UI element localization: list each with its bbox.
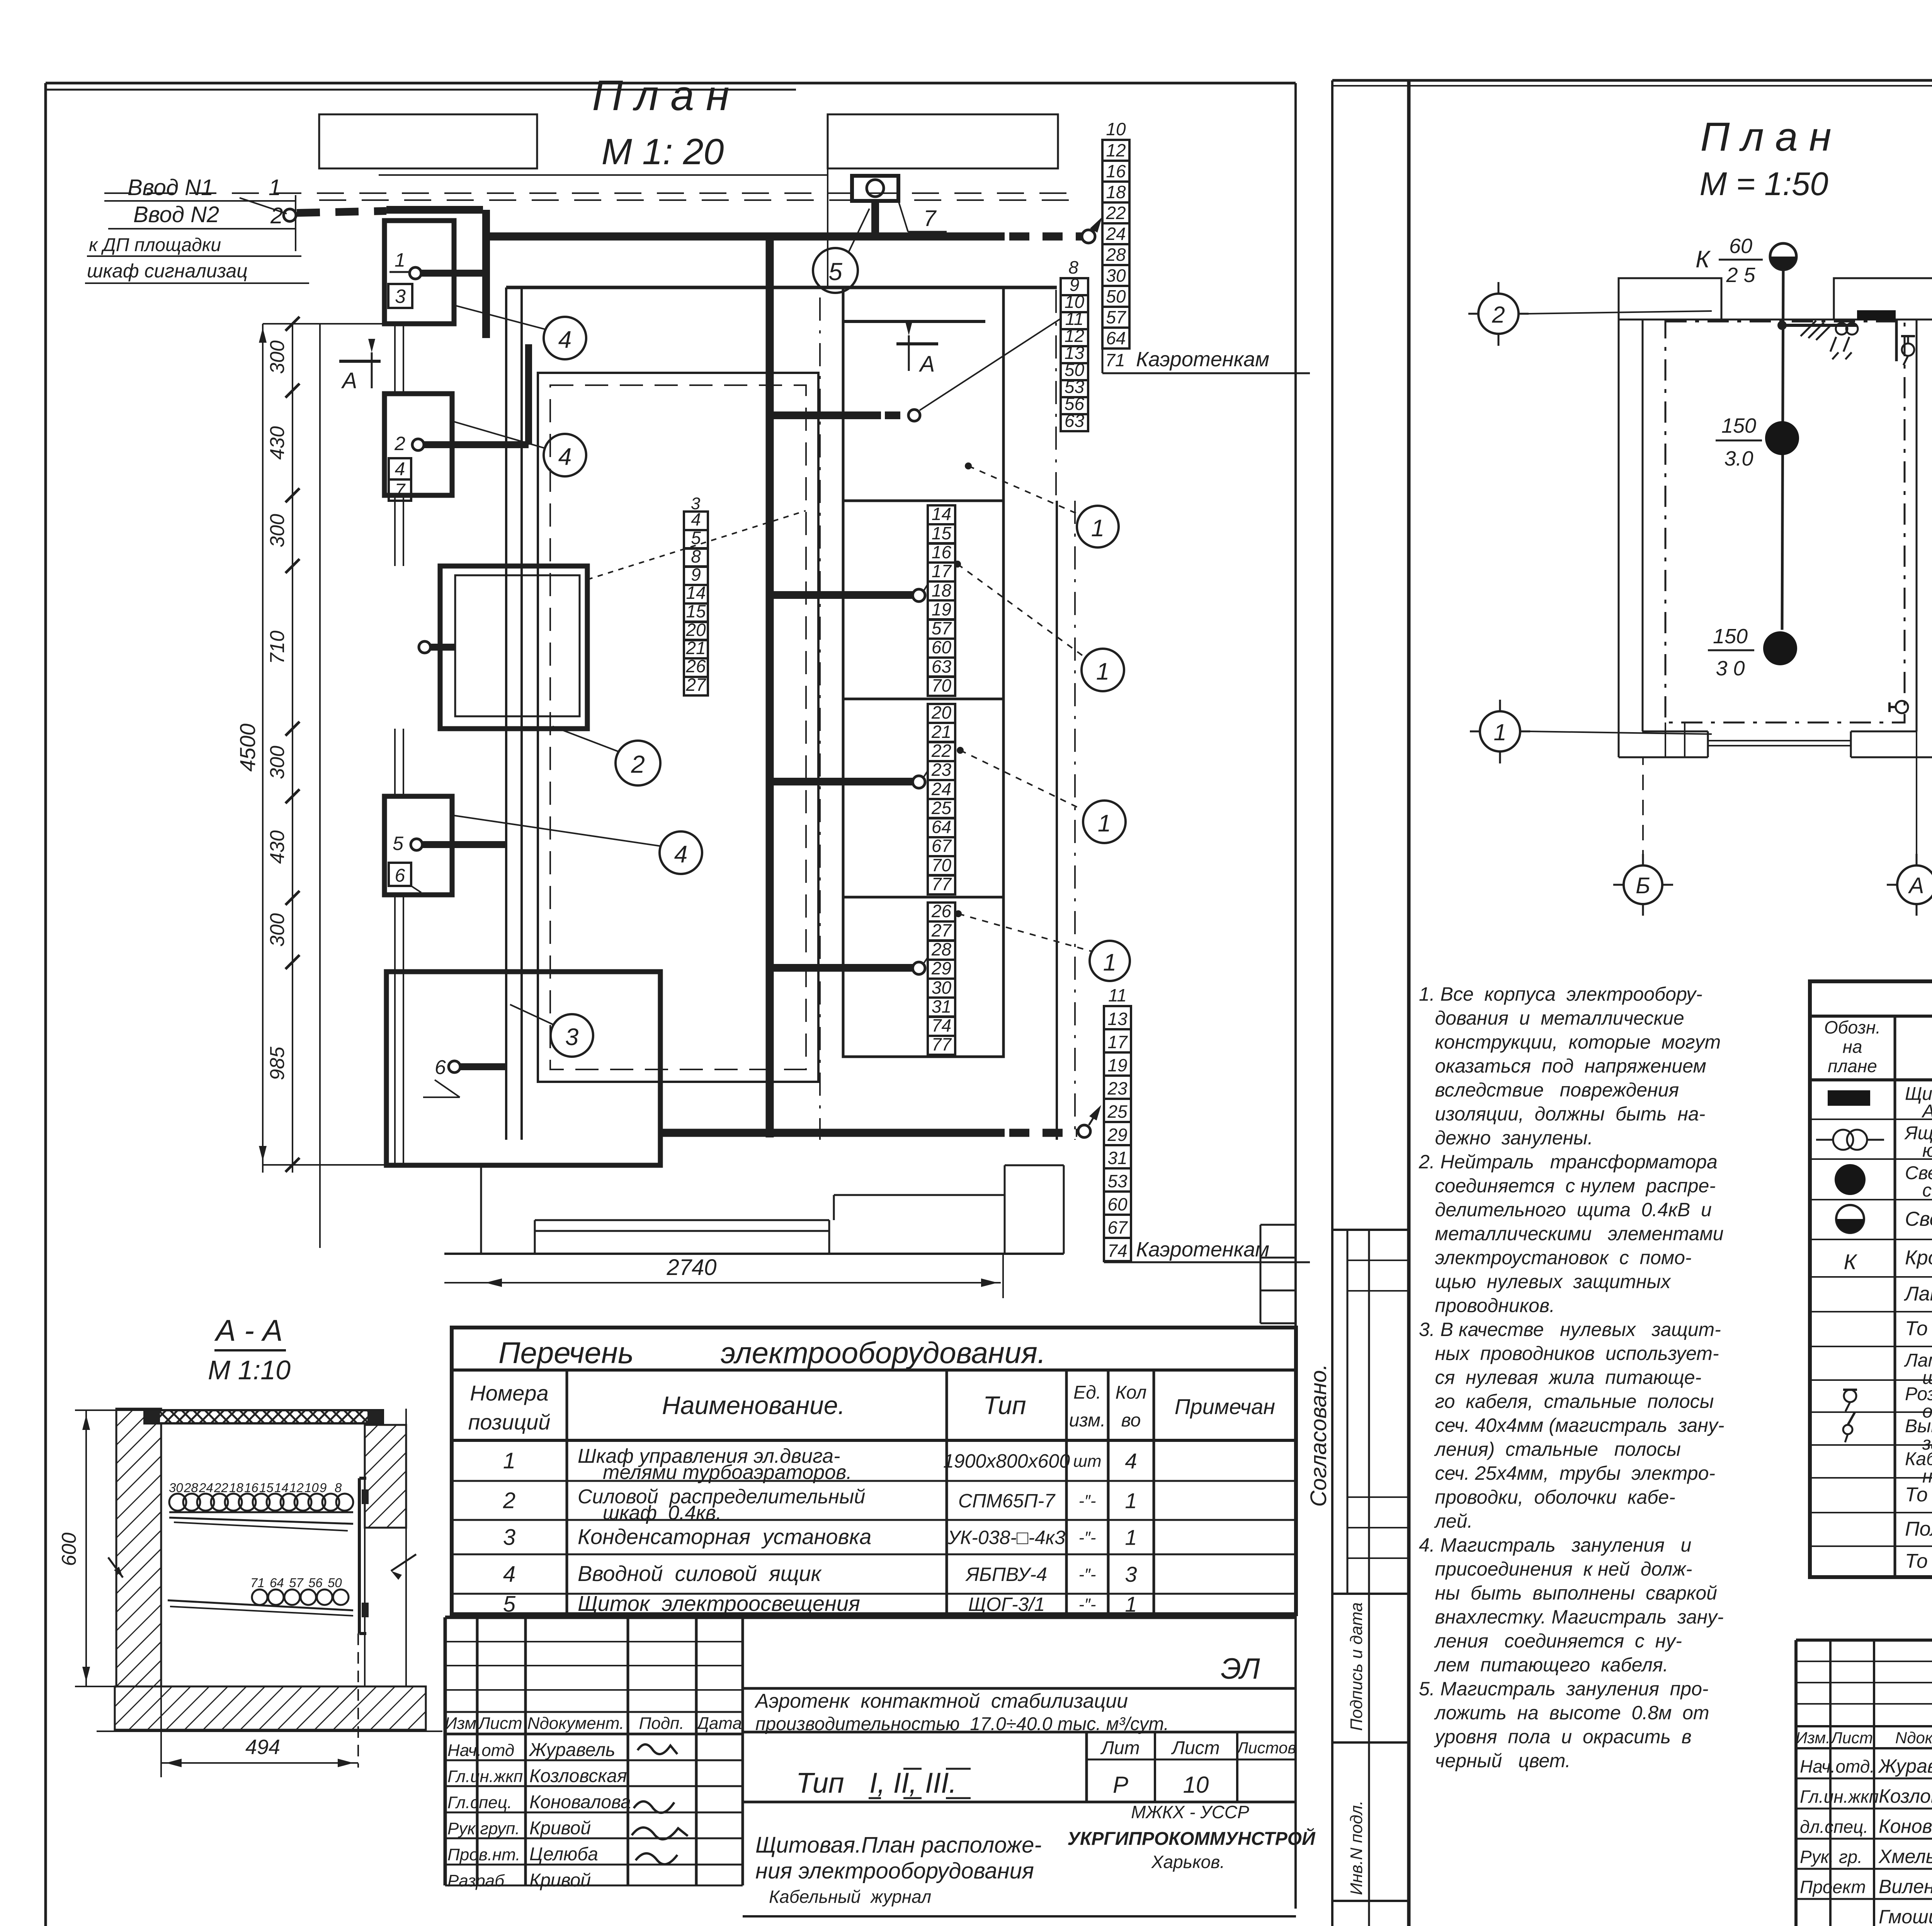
- terminal stack tank3: [928, 901, 955, 1055]
- svg-text:77: 77: [932, 1034, 952, 1054]
- svg-text:Проект: Проект: [1800, 1877, 1866, 1897]
- svg-text:Ввод N1: Ввод N1: [128, 175, 213, 200]
- svg-text:металлическими элементами: металлическими элементами: [1419, 1223, 1724, 1244]
- section mark A right: [896, 322, 938, 377]
- grounding ticks on wire: [1782, 321, 1857, 340]
- signatures left: [632, 1744, 688, 1864]
- svg-text:То же: То же: [1905, 1550, 1932, 1572]
- svg-text:430: 430: [266, 830, 289, 864]
- svg-text:19: 19: [1107, 1055, 1127, 1075]
- svg-text:Кабельный журнал: Кабельный журнал: [769, 1887, 931, 1907]
- svg-text:53: 53: [1107, 1171, 1128, 1191]
- svg-text:Кронштейн настенный.: Кронштейн настенный.: [1905, 1247, 1932, 1269]
- svg-text:27: 27: [685, 675, 706, 695]
- svg-text:То же - 60 Вт: То же - 60 Вт: [1905, 1317, 1932, 1340]
- svg-text:12: 12: [1106, 140, 1126, 160]
- svg-text:26: 26: [685, 656, 706, 676]
- table perechen rows: [503, 1445, 1137, 1617]
- svg-text:Тип: Тип: [983, 1391, 1026, 1419]
- svg-text:5. Магистраль зануления про-: 5. Магистраль зануления про-: [1419, 1678, 1709, 1700]
- socket symbol spec: [1843, 1390, 1857, 1411]
- conduit risers: [395, 324, 403, 1163]
- svg-text:Изм: Изм: [445, 1714, 476, 1733]
- svg-text:проводки, оболочки кабе-: проводки, оболочки кабе-: [1419, 1486, 1675, 1508]
- terminal column top-right: [1102, 119, 1310, 373]
- luminaire NSP top: [1770, 243, 1796, 270]
- svg-text:64: 64: [932, 817, 951, 837]
- svg-text:Подп.: Подп.: [639, 1714, 684, 1733]
- cabinet 3 (distribution cabinet): [419, 566, 587, 729]
- callout circle 4 top: [454, 305, 586, 359]
- svg-text:к ДП площадки: к ДП площадки: [89, 235, 221, 255]
- svg-text:5: 5: [503, 1592, 516, 1617]
- svg-text:24: 24: [931, 779, 951, 799]
- svg-text:71: 71: [1105, 350, 1125, 370]
- svg-text:ления) стальные полосы: ления) стальные полосы: [1419, 1438, 1681, 1460]
- cabinet 1 (box with 1/3): [384, 221, 486, 324]
- svg-text:То же сеч. 3х25: То же сеч. 3х25: [1905, 1484, 1932, 1506]
- svg-text:5: 5: [393, 833, 403, 854]
- callout circle 1 b: [957, 747, 1126, 843]
- svg-text:12: 12: [289, 1481, 304, 1495]
- svg-text:10: 10: [304, 1481, 319, 1495]
- svg-text:Гл.спец.: Гл.спец.: [447, 1793, 512, 1812]
- svg-text:сеч. 40х4мм (магистраль зану-: сеч. 40х4мм (магистраль зану-: [1419, 1414, 1724, 1436]
- svg-text:Козловская: Козловская: [529, 1766, 627, 1787]
- svg-text:Пров.нт.: Пров.нт.: [447, 1845, 520, 1864]
- svg-text:1: 1: [1103, 949, 1116, 976]
- svg-text:СПМ65П-7: СПМ65П-7: [958, 1490, 1056, 1512]
- svg-text:8: 8: [335, 1481, 342, 1495]
- left title block frame: [445, 1617, 1296, 1916]
- svg-text:Коновалова: Коновалова: [529, 1792, 631, 1812]
- svg-text:23: 23: [931, 760, 952, 780]
- svg-text:Нач.отд.: Нач.отд.: [1800, 1756, 1875, 1776]
- wall: tank block left double: [506, 287, 1057, 1140]
- svg-text:проводников.: проводников.: [1419, 1295, 1555, 1316]
- cable bundle row 1: [169, 1481, 353, 1531]
- svg-text:22: 22: [931, 741, 951, 761]
- svg-text:16: 16: [244, 1481, 259, 1495]
- cable bundle row 2: [168, 1576, 353, 1616]
- svg-text:77: 77: [932, 874, 952, 894]
- svg-text:А: А: [1908, 873, 1924, 898]
- callout circle 4 low: [452, 815, 702, 874]
- svg-text:-″-: -″-: [1079, 1595, 1096, 1614]
- wire drop along wall: [1895, 320, 1898, 361]
- svg-text:плане: плане: [1828, 1056, 1877, 1076]
- svg-text:Лит: Лит: [1100, 1738, 1140, 1758]
- svg-text:3: 3: [565, 1024, 578, 1051]
- axis circle A: [1887, 676, 1932, 916]
- svg-text:150: 150: [1721, 414, 1756, 437]
- svg-text:17: 17: [1107, 1032, 1128, 1052]
- svg-text:шт: шт: [1073, 1452, 1101, 1471]
- svg-text:сеч. 25х4мм, трубы электро-: сеч. 25х4мм, трубы электро-: [1419, 1462, 1715, 1484]
- svg-text:Примечан: Примечан: [1175, 1394, 1275, 1419]
- leader marks section: [108, 1554, 416, 1580]
- callout circle 5: [813, 209, 869, 293]
- svg-text:Конденсаторная установка: Конденсаторная установка: [578, 1525, 871, 1549]
- svg-text:Перечень: Перечень: [498, 1336, 634, 1370]
- svg-text:М = 1:50: М = 1:50: [1699, 166, 1828, 202]
- dimension 600: [58, 1410, 145, 1686]
- svg-text:9: 9: [691, 564, 701, 585]
- svg-text:1: 1: [269, 175, 281, 200]
- bottom wall lines: [386, 1165, 1064, 1254]
- room walls M1:50: [1619, 278, 1932, 757]
- svg-text:57: 57: [932, 618, 952, 638]
- left sheet filing strip cells: [1260, 1225, 1296, 1323]
- grounding loop room: [1665, 321, 1905, 722]
- leader to stack 3-27: [587, 511, 806, 580]
- svg-text:1. Все корпуса электрообору-: 1. Все корпуса электрообору-: [1419, 983, 1702, 1005]
- title Plan M1:20: [592, 72, 729, 172]
- wire: main vertical bus: [766, 236, 774, 1137]
- svg-text:11: 11: [1108, 985, 1127, 1005]
- svg-text:4500: 4500: [235, 724, 260, 772]
- svg-text:Щиток электроосвещения: Щиток электроосвещения: [578, 1591, 860, 1616]
- svg-text:Разраб.: Разраб.: [447, 1872, 509, 1890]
- svg-text:15: 15: [686, 601, 706, 621]
- svg-text:Инв.N подл.: Инв.N подл.: [1347, 1800, 1366, 1895]
- sheet frame left: [46, 83, 1296, 1926]
- svg-text:57: 57: [289, 1576, 304, 1590]
- svg-text:300: 300: [266, 514, 289, 547]
- svg-text:Гл.ин.жкп: Гл.ин.жкп: [447, 1767, 523, 1786]
- svg-text:300: 300: [266, 340, 289, 374]
- svg-text:Nдокумент.: Nдокумент.: [527, 1714, 624, 1733]
- svg-text:Номера: Номера: [470, 1381, 548, 1405]
- svg-text:300: 300: [266, 746, 289, 779]
- svg-text:Гмошинский: Гмошинский: [1879, 1906, 1932, 1926]
- svg-text:4: 4: [558, 326, 571, 353]
- svg-text:-″-: -″-: [1079, 1492, 1096, 1511]
- svg-text:шкаф 0.4кв.: шкаф 0.4кв.: [603, 1502, 721, 1524]
- svg-text:3.0: 3.0: [1724, 447, 1753, 470]
- svg-text:Ед.: Ед.: [1073, 1382, 1101, 1403]
- svg-text:вследствие повреждения: вследствие повреждения: [1419, 1079, 1679, 1101]
- svg-text:2: 2: [631, 750, 645, 778]
- svg-text:15: 15: [259, 1481, 274, 1495]
- svg-text:63: 63: [1065, 411, 1085, 431]
- callout circle 2: [553, 726, 660, 785]
- svg-text:ния электрооборудования: ния электрооборудования: [755, 1858, 1034, 1884]
- svg-text:70: 70: [932, 675, 952, 695]
- spec symbols column: [1816, 1090, 1884, 1274]
- svg-text:Лампа накаливания -150 Вт: Лампа накаливания -150 Вт: [1904, 1283, 1932, 1305]
- svg-text:3: 3: [1125, 1562, 1137, 1586]
- grounding dash line top: [104, 192, 1074, 194]
- svg-text:оказаться под напряжением: оказаться под напряжением: [1419, 1055, 1706, 1077]
- junction box 7: [852, 176, 947, 236]
- wire: stub to tank 1: [770, 584, 928, 602]
- svg-text:Согласовано.: Согласовано.: [1306, 1364, 1331, 1507]
- node Vvod N2: [108, 195, 296, 251]
- svg-text:К: К: [1844, 1249, 1857, 1274]
- svg-text:30: 30: [932, 977, 952, 998]
- svg-text:74: 74: [932, 1015, 951, 1035]
- svg-text:Б: Б: [1636, 873, 1650, 898]
- svg-text:уровня пола и окрасить в: уровня пола и окрасить в: [1419, 1726, 1692, 1748]
- svg-text:17: 17: [932, 561, 952, 581]
- svg-text:22: 22: [214, 1481, 228, 1495]
- svg-text:1: 1: [1125, 1592, 1137, 1617]
- svg-text:делительного щита 0.4кВ и: делительного щита 0.4кВ и: [1419, 1199, 1712, 1221]
- svg-text:28: 28: [931, 939, 952, 959]
- svg-text:710: 710: [266, 631, 289, 664]
- svg-text:64: 64: [270, 1576, 284, 1590]
- right title block frame: [1796, 1618, 1932, 1926]
- svg-text:Лист: Лист: [1830, 1729, 1873, 1747]
- svg-text:67: 67: [1107, 1217, 1128, 1238]
- svg-text:-″-: -″-: [1079, 1565, 1096, 1584]
- svg-text:1: 1: [395, 249, 405, 271]
- svg-text:внахлестку. Магистраль зану-: внахлестку. Магистраль зану-: [1419, 1606, 1724, 1628]
- svg-text:ющим тр-ром 250 ВА, 220/36В: ющим тр-ром 250 ВА, 220/36В: [1922, 1141, 1932, 1161]
- svg-text:П л а н: П л а н: [592, 72, 729, 119]
- dimension chain vertical: [235, 317, 386, 1248]
- svg-text:дежно занулены.: дежно занулены.: [1419, 1127, 1593, 1149]
- grounding dash-dot verticals: [820, 290, 1075, 1140]
- svg-text:1900х800х600: 1900х800х600: [943, 1450, 1070, 1472]
- svg-text:А: А: [341, 368, 357, 393]
- svg-text:Харьков.: Харьков.: [1151, 1852, 1225, 1872]
- svg-text:24: 24: [199, 1481, 213, 1495]
- terminal stack tank2: [928, 702, 955, 894]
- svg-text:на: на: [1843, 1037, 1862, 1057]
- panel ShchOG on plan: [1857, 310, 1896, 320]
- wire: stub to tank 2: [770, 771, 928, 788]
- socket symbol on plan: [1901, 336, 1915, 365]
- svg-text:67: 67: [932, 836, 952, 856]
- svg-text:24: 24: [1105, 224, 1126, 244]
- svg-text:4: 4: [691, 509, 701, 529]
- svg-text:Тип: Тип: [796, 1767, 844, 1799]
- svg-text:2 5: 2 5: [1726, 263, 1755, 287]
- svg-text:дования и металлические: дования и металлические: [1419, 1007, 1684, 1029]
- svg-text:14: 14: [932, 504, 951, 524]
- svg-text:7: 7: [923, 206, 937, 231]
- right title block texts: [1796, 1638, 1932, 1926]
- svg-text:Виленский: Виленский: [1879, 1876, 1932, 1897]
- svg-text:ложить на высоте 0.8м от: ложить на высоте 0.8м от: [1419, 1702, 1709, 1724]
- svg-text:Подпись и дата: Подпись и дата: [1347, 1602, 1366, 1731]
- svg-text:2740: 2740: [666, 1255, 716, 1280]
- cabinet 4 (box with 5/6): [384, 796, 506, 895]
- svg-text:шкаф сигнализац: шкаф сигнализац: [87, 260, 248, 282]
- svg-text:черный цвет.: черный цвет.: [1419, 1750, 1571, 1771]
- callout circle 1 c: [955, 910, 1130, 981]
- section A-A title: [208, 1313, 291, 1385]
- svg-text:2: 2: [503, 1488, 515, 1513]
- svg-text:Лист: Лист: [477, 1714, 522, 1733]
- svg-text:Ввод N2: Ввод N2: [133, 202, 219, 227]
- svg-text:ных проводников использует-: ных проводников использует-: [1419, 1343, 1719, 1364]
- svg-text:15: 15: [932, 523, 952, 543]
- svg-text:71: 71: [250, 1576, 265, 1590]
- svg-text:Дата: Дата: [695, 1714, 742, 1733]
- svg-text:Коновалова: Коновалова: [1879, 1816, 1932, 1837]
- svg-text:МЖКХ - УССР: МЖКХ - УССР: [1131, 1802, 1249, 1822]
- svg-text:телями турбоаэраторов.: телями турбоаэраторов.: [603, 1461, 852, 1484]
- wire stub 4 with circle: [770, 319, 1060, 421]
- callout circle 4 mid: [452, 421, 586, 476]
- svg-text:21: 21: [931, 722, 951, 742]
- svg-text:Журавель: Журавель: [529, 1740, 615, 1760]
- svg-text:Вводной силовой ящик: Вводной силовой ящик: [578, 1561, 822, 1586]
- table spec frame: [1810, 981, 1932, 1577]
- svg-text:2. Нейтраль трансформатора: 2. Нейтраль трансформатора: [1418, 1151, 1718, 1173]
- terminal stack mid (3..27): [684, 494, 708, 695]
- transformer box symbol on plan: [1830, 323, 1858, 359]
- callout circle 1 top: [965, 462, 1119, 547]
- svg-text:А: А: [919, 352, 935, 377]
- svg-text:14: 14: [274, 1481, 289, 1495]
- svg-text:изоляции, должны быть на-: изоляции, должны быть на-: [1419, 1103, 1705, 1125]
- axis circle 1: [1470, 700, 1712, 763]
- svg-text:4. Магистраль зануления и: 4. Магистраль зануления и: [1419, 1534, 1691, 1556]
- svg-text:29: 29: [931, 958, 951, 978]
- tank cells: [843, 287, 1003, 1057]
- svg-text:щью нулевых защитных: щью нулевых защитных: [1419, 1271, 1671, 1292]
- cable tray bracket: [359, 1478, 369, 1634]
- svg-text:Листов: Листов: [1236, 1739, 1296, 1757]
- terminal column bottom-right: [1104, 985, 1310, 1262]
- table perechen frame: [452, 1328, 1296, 1614]
- svg-text:Каэротенкам: Каэротенкам: [1136, 1238, 1269, 1261]
- terminal stack tank1: [928, 504, 955, 696]
- svg-text:Гл.ин.жкп: Гл.ин.жкп: [1800, 1787, 1879, 1807]
- svg-text:4: 4: [558, 444, 571, 470]
- svg-text:4: 4: [503, 1562, 515, 1587]
- svg-text:150: 150: [1713, 625, 1748, 648]
- table spec rows: [1904, 1084, 1932, 1580]
- svg-text:электрооборудования.: электрооборудования.: [721, 1336, 1046, 1370]
- svg-text:лем питающего кабеля.: лем питающего кабеля.: [1419, 1654, 1668, 1676]
- svg-text:3. В качестве нулевых защи: 3. В качестве нулевых защит-: [1419, 1319, 1721, 1340]
- svg-text:Наименование.: Наименование.: [662, 1391, 845, 1419]
- wire: stub to tank 3: [770, 957, 928, 974]
- svg-text:1: 1: [1098, 810, 1111, 837]
- wall outline top-left bar: [319, 114, 537, 168]
- svg-text:Р: Р: [1113, 1772, 1128, 1798]
- sheet frame right: [1332, 80, 1932, 1926]
- wire: entry with circle: [240, 198, 486, 338]
- svg-text:4: 4: [1125, 1449, 1137, 1473]
- svg-text:Кривой: Кривой: [529, 1818, 591, 1839]
- section A-A walls: [97, 1409, 442, 1731]
- svg-text:1: 1: [1096, 658, 1109, 685]
- node 6 connection: [423, 1056, 506, 1097]
- wall: left chamber inner rect: [538, 373, 818, 1082]
- svg-text:присоединения к ней долж-: присоединения к ней долж-: [1419, 1558, 1692, 1580]
- svg-text:25: 25: [1107, 1102, 1128, 1122]
- cabinet 5 (condenser unit box): [386, 972, 660, 1165]
- svg-text:29: 29: [1107, 1125, 1127, 1145]
- svg-text:9: 9: [320, 1481, 327, 1495]
- wall line below bars: [827, 168, 828, 287]
- svg-text:Нач.отд: Нач.отд: [447, 1741, 514, 1760]
- svg-text:300: 300: [266, 913, 289, 947]
- svg-text:Аэротенк контактной стабилиз: Аэротенк контактной стабилизации: [754, 1690, 1128, 1712]
- svg-text:соединяется с нулем распре-: соединяется с нулем распре-: [1419, 1175, 1716, 1197]
- svg-text:электроустановок с помо-: электроустановок с помо-: [1419, 1247, 1692, 1268]
- svg-text:К: К: [1696, 246, 1711, 273]
- svg-text:31: 31: [932, 996, 951, 1017]
- svg-text:УК-038-□-4к3: УК-038-□-4к3: [947, 1527, 1065, 1549]
- svg-text:20: 20: [931, 702, 952, 722]
- svg-text:26: 26: [931, 901, 952, 921]
- svg-text:10: 10: [1106, 119, 1126, 139]
- cabinet 2 (box with 4/7): [384, 344, 529, 501]
- svg-text:2: 2: [270, 203, 283, 228]
- svg-text:28: 28: [184, 1481, 198, 1495]
- luminaire Shar 2: [1708, 625, 1797, 680]
- svg-text:13: 13: [1107, 1009, 1128, 1029]
- svg-text:4: 4: [674, 841, 687, 868]
- svg-text:57: 57: [1106, 307, 1126, 327]
- svg-text:50: 50: [1106, 286, 1126, 306]
- svg-text:Кривой: Кривой: [529, 1870, 591, 1891]
- axis circle B: [1613, 757, 1673, 916]
- svg-text:430: 430: [266, 426, 289, 460]
- left title block texts: [445, 1652, 1316, 1907]
- svg-text:10: 10: [1183, 1772, 1209, 1798]
- svg-text:УКРГИПРОКОММУНСТРОЙ: УКРГИПРОКОММУНСТРОЙ: [1067, 1828, 1316, 1849]
- svg-text:19: 19: [932, 599, 951, 619]
- grounding dashed loop left chamber: [550, 385, 806, 1069]
- svg-text:А - А: А - А: [214, 1313, 282, 1347]
- svg-text:6: 6: [435, 1056, 446, 1079]
- svg-text:74: 74: [1107, 1241, 1127, 1261]
- dimension 2740 bottom: [444, 1254, 1003, 1298]
- lamp K bracket: [1696, 235, 1763, 287]
- svg-text:дл.спец.: дл.спец.: [1800, 1817, 1868, 1837]
- svg-text:2: 2: [394, 433, 405, 454]
- svg-text:1: 1: [1125, 1525, 1137, 1550]
- svg-text:Хмельницка: Хмельницка: [1878, 1846, 1932, 1867]
- svg-text:30: 30: [169, 1481, 183, 1495]
- svg-text:Целюба: Целюба: [529, 1844, 598, 1865]
- svg-text:Изм.: Изм.: [1796, 1729, 1830, 1747]
- svg-text:ЯБПВУ-4: ЯБПВУ-4: [965, 1564, 1047, 1585]
- svg-text:21: 21: [685, 638, 706, 658]
- svg-text:30: 30: [1106, 265, 1126, 286]
- svg-text:Светильник уплотненный.: Светильник уплотненный.: [1905, 1208, 1932, 1231]
- svg-text:5: 5: [828, 258, 842, 286]
- svg-text:20: 20: [685, 620, 706, 640]
- axis circle 2: [1468, 282, 1712, 346]
- table spec headers: [1824, 1017, 1932, 1076]
- svg-text:63: 63: [932, 656, 952, 677]
- section A-A slab: [145, 1410, 383, 1423]
- node Vvod N1: [104, 175, 296, 201]
- svg-text:П л а н: П л а н: [1701, 114, 1832, 160]
- svg-text:60: 60: [1729, 235, 1752, 258]
- svg-text:985: 985: [266, 1046, 289, 1080]
- svg-text:494: 494: [245, 1736, 280, 1759]
- svg-text:ся нулевая жила питающе-: ся нулевая жила питающе-: [1419, 1367, 1701, 1388]
- svg-text:2: 2: [1492, 302, 1505, 328]
- svg-text:31: 31: [1107, 1148, 1127, 1168]
- wire: bottom bus: [660, 1105, 1101, 1137]
- svg-text:50: 50: [328, 1576, 342, 1590]
- svg-text:18: 18: [1106, 182, 1126, 202]
- svg-text:Рук. гр.: Рук. гр.: [1800, 1847, 1862, 1867]
- svg-text:18: 18: [932, 580, 952, 600]
- title Plan M=1:50: [1699, 114, 1831, 202]
